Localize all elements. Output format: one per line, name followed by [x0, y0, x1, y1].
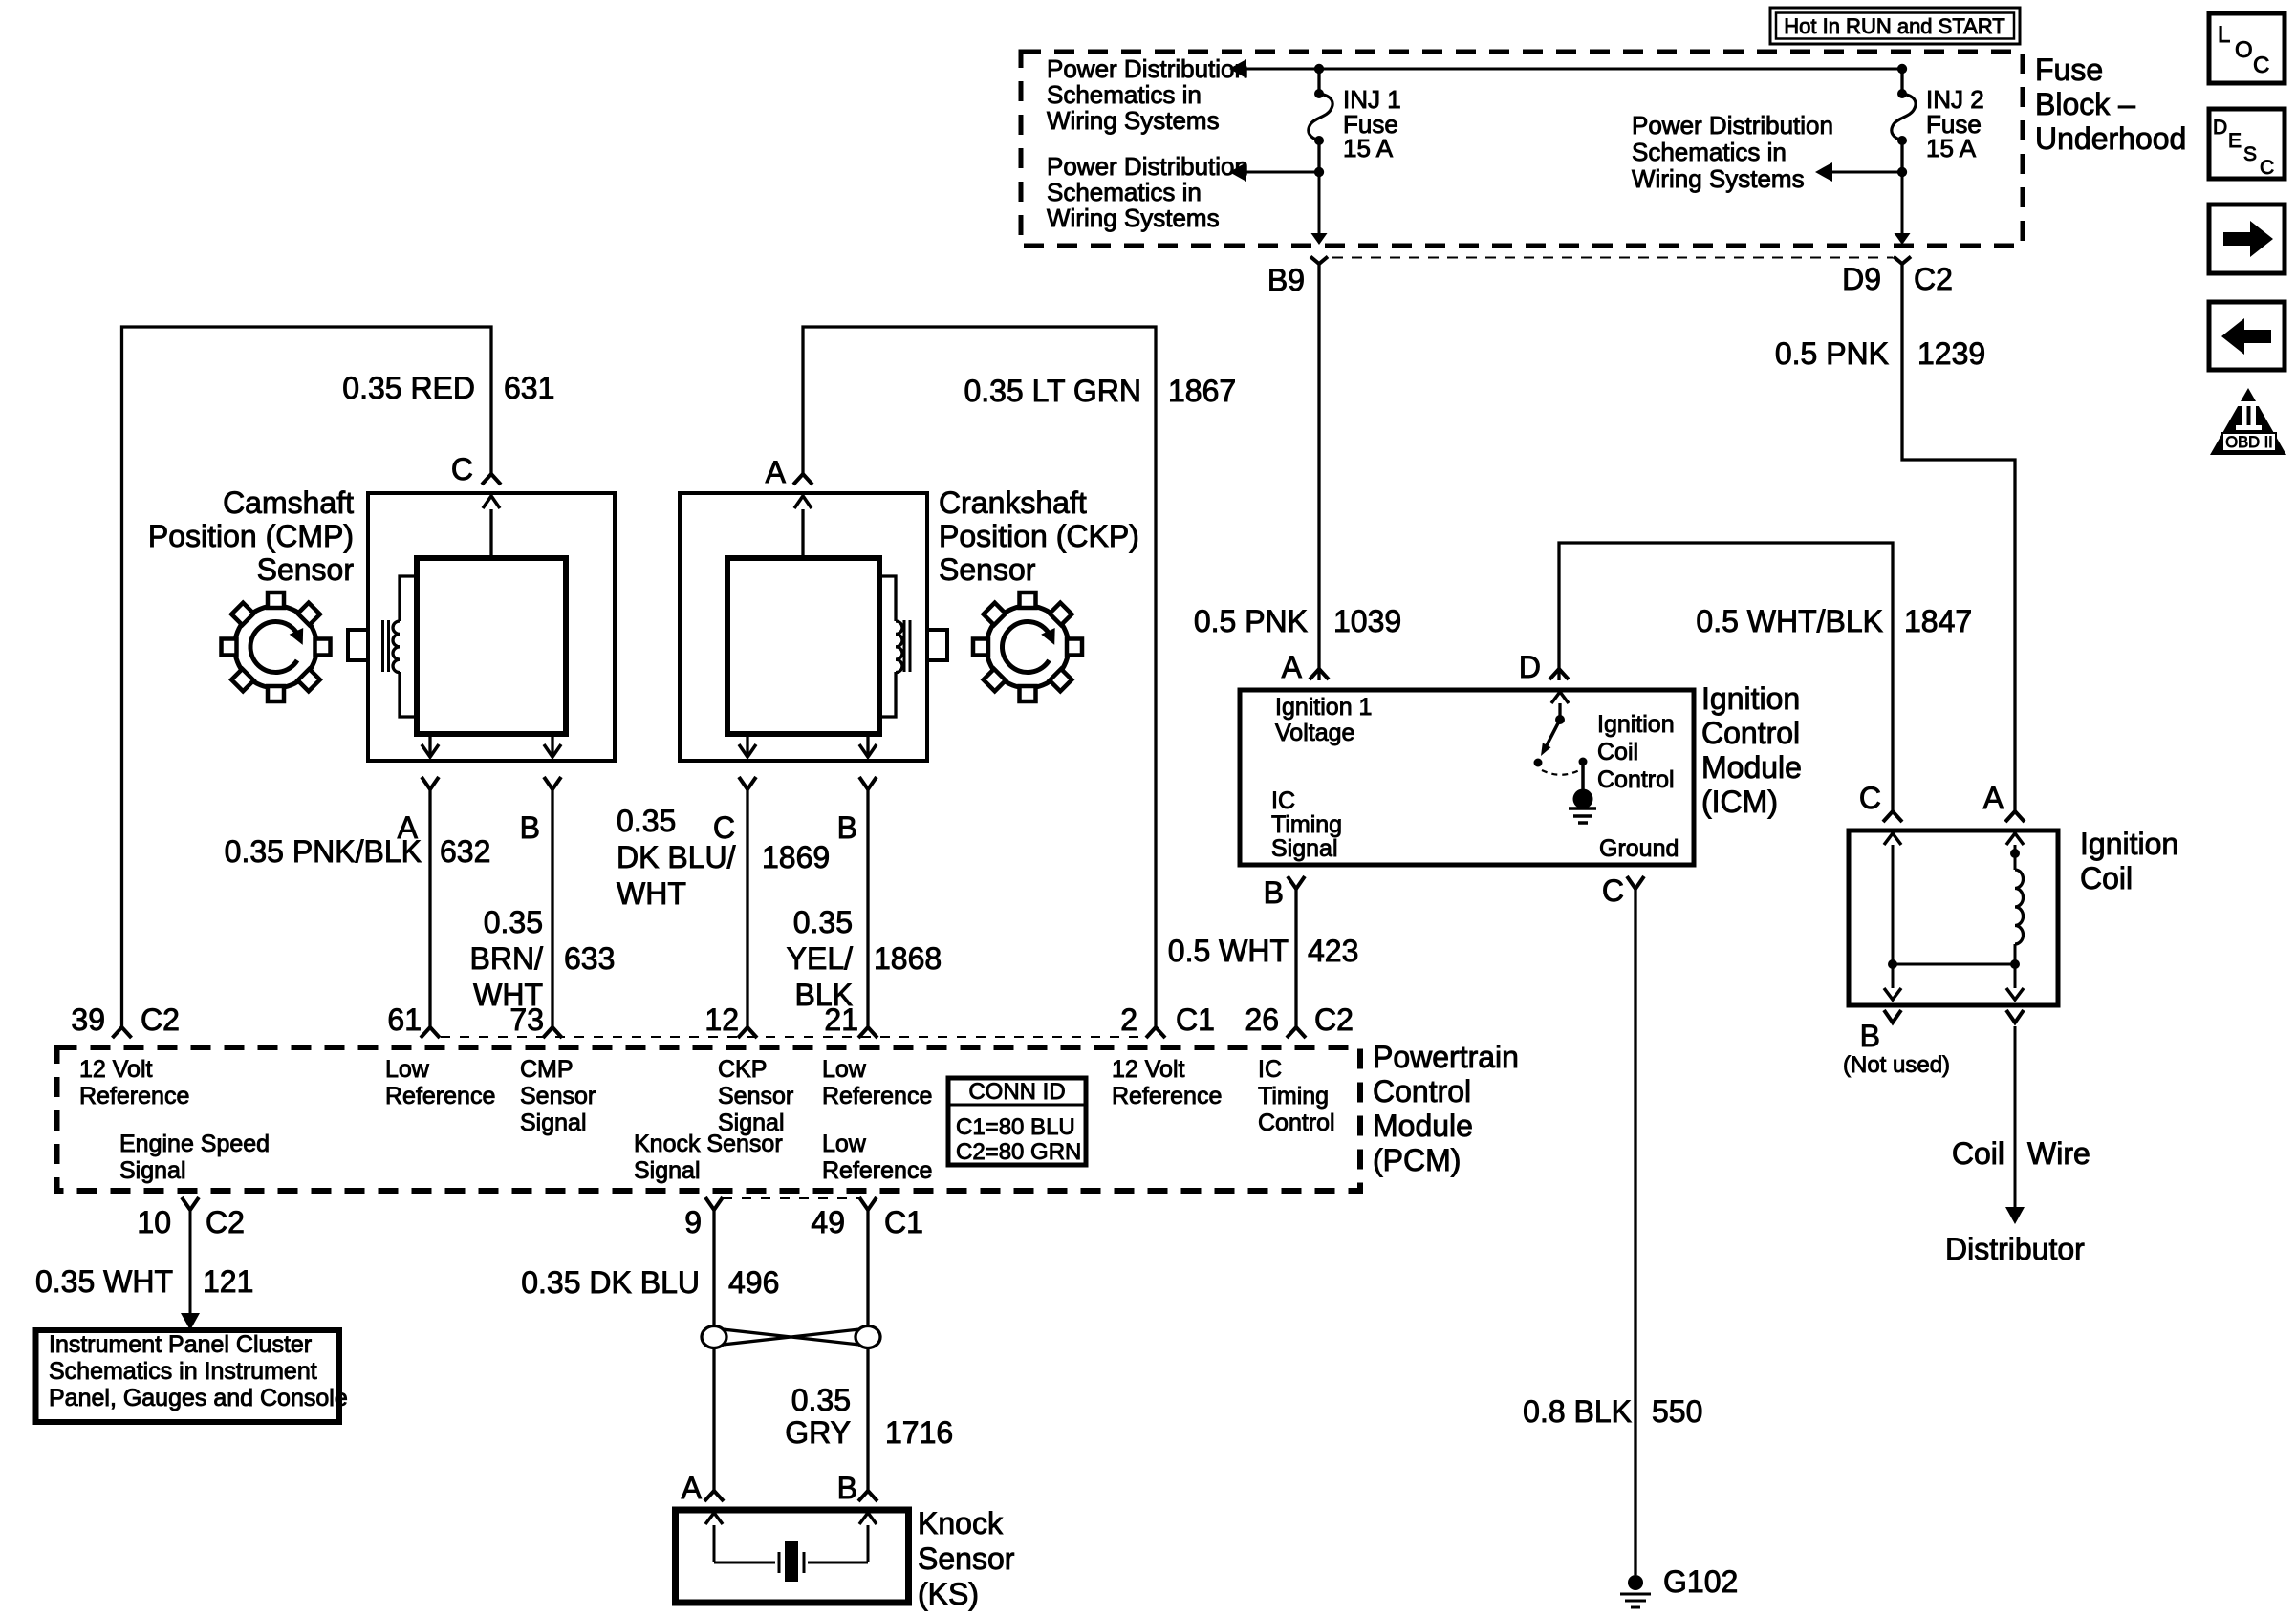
- svg-text:(ICM): (ICM): [1701, 785, 1778, 819]
- KS piezo element: [714, 1562, 775, 1564]
- svg-text:C1=80 BLU: C1=80 BLU: [956, 1114, 1075, 1140]
- knock sensor KS box: [676, 1510, 909, 1603]
- svg-text:0.35: 0.35: [617, 804, 676, 838]
- coil wire to distributor: [2006, 1010, 2024, 1023]
- svg-text:Sensor: Sensor: [520, 1083, 596, 1110]
- ICM internal ground circle: [1573, 789, 1593, 809]
- node junction INJ2 top: [1897, 64, 1907, 74]
- svg-text:0.35 DK BLU: 0.35 DK BLU: [521, 1265, 700, 1300]
- wire 0.5 WHT/BLK 1847 : ICM pin D to ignition coil C: [1559, 543, 1893, 811]
- svg-text:WHT: WHT: [617, 876, 686, 911]
- svg-text:Schematics in: Schematics in: [1047, 178, 1202, 206]
- ground G102: [1628, 1575, 1643, 1590]
- svg-text:C1: C1: [884, 1205, 923, 1239]
- svg-text:12 Volt: 12 Volt: [79, 1056, 153, 1083]
- svg-text:Reference: Reference: [1112, 1083, 1222, 1110]
- svg-text:1868: 1868: [874, 941, 942, 976]
- svg-text:Wiring Systems: Wiring Systems: [1632, 164, 1805, 193]
- svg-text:Ignition: Ignition: [1701, 681, 1800, 716]
- svg-text:0.35 PNK/BLK: 0.35 PNK/BLK: [225, 834, 422, 869]
- svg-text:Distributor: Distributor: [1945, 1232, 2085, 1266]
- icon OBD II triangle: [2210, 388, 2286, 455]
- svg-text:10: 10: [137, 1205, 171, 1239]
- svg-text:Fuse: Fuse: [2035, 53, 2103, 87]
- svg-text:D: D: [1519, 650, 1541, 684]
- wire 0.35 WHT 121 to instrument cluster: [189, 1210, 192, 1313]
- svg-text:Instrument Panel Cluster: Instrument Panel Cluster: [49, 1331, 312, 1358]
- svg-text:Reference: Reference: [79, 1083, 189, 1110]
- svg-text:GRY: GRY: [785, 1415, 851, 1450]
- svg-text:1039: 1039: [1333, 604, 1401, 638]
- wire 0.35 DK BLU 496: [712, 1210, 715, 1491]
- connector pin 12: [738, 1027, 757, 1038]
- wire 0.5 PNK 1239 from D9 to ignition coil A: [1902, 264, 2015, 811]
- svg-text:632: 632: [440, 834, 490, 869]
- svg-text:L: L: [2218, 22, 2230, 48]
- svg-text:Block –: Block –: [2035, 87, 2135, 121]
- wire 0.5 PNK 1039 from B9 to ICM pin A: [1317, 264, 1320, 680]
- svg-text:C2: C2: [1914, 262, 1953, 296]
- svg-text:1716: 1716: [885, 1415, 953, 1450]
- svg-text:Low: Low: [385, 1056, 430, 1083]
- connector A at ignition coil: [2005, 811, 2025, 822]
- svg-text:15 A: 15 A: [1343, 134, 1394, 162]
- svg-text:496: 496: [728, 1265, 779, 1300]
- svg-text:Ignition: Ignition: [1597, 711, 1675, 738]
- crankshaft position sensor CKP outer box: [680, 493, 927, 761]
- wire INJ1 down to B9: [1318, 172, 1321, 233]
- icon left arrow box: [2209, 302, 2285, 370]
- svg-text:S: S: [2243, 143, 2257, 165]
- svg-text:Camshaft: Camshaft: [223, 485, 354, 520]
- svg-text:631: 631: [504, 371, 554, 405]
- connector B below ICM: [1288, 876, 1305, 889]
- svg-text:633: 633: [564, 941, 615, 976]
- svg-text:121: 121: [203, 1264, 253, 1299]
- svg-text:Sensor: Sensor: [939, 552, 1036, 587]
- connector dashed line B9-D9: [1332, 257, 1893, 259]
- powertrain control module PCM dashed box: [57, 1047, 1361, 1191]
- node junction INJ2 bottom: [1897, 167, 1907, 177]
- svg-text:E: E: [2228, 130, 2242, 152]
- ICM switch contact dot: [1555, 715, 1565, 724]
- ICM switch: arrow up to pin D: [1558, 703, 1561, 720]
- svg-text:Engine Speed: Engine Speed: [119, 1131, 270, 1157]
- wire 0.5 WHT 423 : ICM B to PCM 26: [1294, 889, 1297, 1027]
- wire 0.35 YEL/BLK 1868: [866, 789, 869, 1027]
- svg-text:CMP: CMP: [520, 1056, 574, 1083]
- wire 0.35 RED 631 : CMP pin C to PCM pin 39: [122, 327, 492, 1027]
- svg-text:DK BLU/: DK BLU/: [617, 840, 736, 874]
- svg-text:C: C: [2253, 53, 2269, 78]
- connector B at knock sensor: [858, 1491, 877, 1501]
- svg-text:Signal: Signal: [634, 1157, 701, 1184]
- svg-text:Power Distribution: Power Distribution: [1047, 152, 1248, 181]
- svg-text:B9: B9: [1267, 263, 1305, 297]
- twisted pair symbol: [702, 1326, 726, 1348]
- icon LOC box: [2209, 13, 2285, 83]
- svg-text:B: B: [837, 1471, 857, 1505]
- svg-text:0.35 LT GRN: 0.35 LT GRN: [964, 374, 1141, 408]
- wire 0.35 BRN/WHT 633: [551, 789, 553, 1027]
- node junction INJ1 bottom: [1314, 167, 1324, 177]
- CKP sensor inner element box: [727, 558, 879, 734]
- svg-text:15 A: 15 A: [1926, 134, 1977, 162]
- node junction INJ1 top: [1314, 64, 1324, 74]
- CKP pickup coil winding: [896, 621, 902, 673]
- connector pin 9: [705, 1197, 723, 1210]
- connector C at CMP sensor: [482, 474, 501, 485]
- svg-text:12 Volt: 12 Volt: [1112, 1056, 1185, 1083]
- connector pin 10 / C2: [182, 1197, 199, 1210]
- svg-text:Voltage: Voltage: [1275, 720, 1354, 746]
- fuse block underhood dashed box: [1021, 52, 2023, 246]
- svg-text:C2: C2: [1314, 1002, 1354, 1037]
- svg-text:Wiring Systems: Wiring Systems: [1047, 106, 1220, 135]
- svg-text:Underhood: Underhood: [2035, 121, 2186, 156]
- svg-text:0.35: 0.35: [484, 905, 543, 939]
- CMP internal arrow down to pin B: [551, 734, 553, 745]
- fuse INJ 2 15A: [1900, 69, 1903, 94]
- CONN ID box: [948, 1078, 1086, 1165]
- svg-text:A: A: [682, 1471, 703, 1505]
- svg-text:Coil: Coil: [2080, 861, 2133, 895]
- connector pin 21: [858, 1027, 877, 1038]
- svg-text:Position (CKP): Position (CKP): [939, 519, 1139, 553]
- svg-text:1847: 1847: [1904, 604, 1972, 638]
- svg-text:2: 2: [1120, 1002, 1137, 1037]
- connector B below coil (not used): [1884, 1010, 1901, 1023]
- svg-text:C1: C1: [1176, 1002, 1215, 1037]
- svg-text:(Not used): (Not used): [1843, 1052, 1950, 1078]
- svg-text:0.8 BLK: 0.8 BLK: [1523, 1394, 1632, 1429]
- ignition control module ICM box: [1240, 690, 1694, 865]
- svg-text:1239: 1239: [1917, 336, 1985, 371]
- connector pin 39 / C2: [113, 1027, 132, 1038]
- ICM switch blade with arrowhead: [1547, 720, 1560, 745]
- CKP pickup loop: [879, 576, 896, 717]
- camshaft position sensor CMP outer box: [368, 493, 615, 761]
- svg-text:D: D: [2213, 117, 2227, 139]
- KS internal arrow B: [867, 1525, 870, 1562]
- connector B below CMP: [544, 777, 561, 789]
- instrument panel cluster reference box: [36, 1330, 340, 1422]
- ICM switch travel dashed arc: [1542, 769, 1581, 775]
- svg-text:Sensor: Sensor: [718, 1083, 793, 1110]
- CKP core lines: [903, 620, 906, 672]
- svg-text:B: B: [1860, 1019, 1880, 1053]
- svg-text:0.35 RED: 0.35 RED: [342, 371, 475, 405]
- svg-text:12: 12: [704, 1002, 739, 1037]
- svg-text:9: 9: [684, 1205, 702, 1239]
- svg-text:Reference: Reference: [822, 1083, 932, 1110]
- svg-text:Signal: Signal: [520, 1110, 587, 1136]
- svg-text:C: C: [451, 452, 473, 486]
- svg-text:Control: Control: [1373, 1074, 1471, 1109]
- svg-text:Signal: Signal: [1271, 835, 1338, 862]
- svg-text:Knock Sensor: Knock Sensor: [634, 1131, 783, 1157]
- svg-text:G102: G102: [1663, 1564, 1738, 1599]
- svg-text:Schematics in: Schematics in: [1632, 138, 1787, 166]
- svg-text:OBD II: OBD II: [2225, 434, 2273, 451]
- svg-text:C2=80 GRN: C2=80 GRN: [956, 1139, 1081, 1165]
- connector pin 49 / C1: [859, 1197, 877, 1210]
- svg-text:C: C: [2260, 157, 2274, 179]
- wire 0.8 BLK 550 : ICM C to G102: [1634, 889, 1636, 1575]
- CMP pickup loop: [400, 576, 417, 717]
- svg-text:Timing: Timing: [1258, 1083, 1329, 1110]
- svg-text:Timing: Timing: [1271, 811, 1342, 838]
- ICM switch lower-left contact dot: [1534, 759, 1543, 767]
- connector C below ICM: [1627, 876, 1644, 889]
- svg-text:B: B: [520, 810, 540, 845]
- CMP internal arrow down to pin A: [428, 734, 431, 745]
- connector A below CMP: [422, 777, 439, 789]
- svg-text:Power Distribution: Power Distribution: [1047, 54, 1248, 83]
- svg-text:C2: C2: [141, 1002, 180, 1037]
- CMP reluctor gear icon: [235, 606, 317, 688]
- connector pin 73: [543, 1027, 562, 1038]
- connector dashed line pins 61..2: [441, 1036, 1147, 1038]
- connector A at ICM: [1310, 669, 1329, 679]
- svg-text:Low: Low: [822, 1056, 867, 1083]
- ICM internal ground symbol: [1569, 807, 1596, 810]
- svg-text:Signal: Signal: [119, 1157, 186, 1184]
- svg-text:1867: 1867: [1168, 374, 1236, 408]
- wire bus from INJ1 fuse to INJ2 fuse: [1246, 68, 1902, 71]
- label Hot In RUN and START box: [1770, 8, 2020, 44]
- svg-text:73: 73: [509, 1002, 544, 1037]
- svg-text:YEL/: YEL/: [787, 941, 853, 976]
- svg-text:Module: Module: [1373, 1109, 1473, 1143]
- svg-text:0.5 PNK: 0.5 PNK: [1194, 604, 1308, 638]
- svg-text:423: 423: [1308, 934, 1358, 968]
- svg-text:1869: 1869: [762, 840, 830, 874]
- svg-text:CONN ID: CONN ID: [968, 1079, 1065, 1105]
- svg-text:Ignition 1: Ignition 1: [1275, 694, 1372, 721]
- svg-text:Power Distribution: Power Distribution: [1632, 111, 1833, 140]
- svg-text:Ground: Ground: [1599, 835, 1679, 862]
- svg-text:Reference: Reference: [385, 1083, 495, 1110]
- svg-text:(KS): (KS): [918, 1577, 979, 1611]
- svg-text:(PCM): (PCM): [1373, 1143, 1461, 1177]
- svg-text:B: B: [837, 810, 857, 845]
- connector A at knock sensor: [704, 1491, 724, 1501]
- svg-text:C: C: [1859, 781, 1881, 815]
- svg-text:CKP: CKP: [718, 1056, 767, 1083]
- svg-text:26: 26: [1245, 1002, 1279, 1037]
- svg-text:BRN/: BRN/: [470, 941, 544, 976]
- svg-text:Low: Low: [822, 1131, 867, 1157]
- icon DESC box: [2209, 109, 2285, 179]
- svg-text:IC: IC: [1271, 787, 1295, 814]
- wire arrow to power distribution (lower left): [1246, 171, 1319, 174]
- svg-text:Panel, Gauges and Console: Panel, Gauges and Console: [49, 1385, 348, 1411]
- svg-text:49: 49: [811, 1205, 845, 1239]
- CKP mounting tab: [927, 630, 947, 660]
- ignition coil box: [1849, 830, 2058, 1005]
- svg-text:0.5 WHT/BLK: 0.5 WHT/BLK: [1696, 604, 1883, 638]
- CMP mounting tab: [348, 630, 368, 660]
- connector B below CKP: [859, 777, 877, 789]
- wire arrow to power distribution (center): [1832, 171, 1902, 174]
- svg-text:Ignition: Ignition: [2080, 827, 2178, 861]
- svg-text:Control: Control: [1597, 766, 1675, 793]
- connector B9: [1310, 257, 1328, 265]
- CKP internal arrow down to pin B: [866, 734, 869, 757]
- svg-text:Schematics in: Schematics in: [1047, 80, 1202, 109]
- svg-text:Knock: Knock: [918, 1506, 1004, 1541]
- ICM switch right contact dot: [1579, 758, 1588, 766]
- svg-text:D9: D9: [1842, 262, 1881, 296]
- coil primary line with arrows: [1892, 845, 1895, 959]
- wire 0.35 DK BLU/WHT 1869: [746, 789, 748, 1027]
- svg-text:C2: C2: [206, 1205, 245, 1239]
- connector dashed line pins 9-49: [723, 1197, 859, 1199]
- svg-text:O: O: [2235, 37, 2253, 63]
- svg-text:550: 550: [1652, 1394, 1702, 1429]
- connector C at ignition coil: [1883, 811, 1902, 822]
- svg-text:A: A: [1282, 650, 1303, 684]
- svg-text:Reference: Reference: [822, 1157, 932, 1184]
- svg-text:C: C: [1602, 873, 1624, 908]
- connector D9 / C2: [1894, 257, 1911, 265]
- svg-text:0.35: 0.35: [791, 1383, 851, 1417]
- connector pin 26 / C2: [1287, 1027, 1306, 1038]
- wire 0.35 PNK/BLK 632: [428, 789, 431, 1027]
- svg-text:Crankshaft: Crankshaft: [939, 485, 1087, 520]
- connector A at CKP sensor: [793, 474, 812, 485]
- coil internal link: [1893, 963, 2015, 966]
- svg-text:Wiring Systems: Wiring Systems: [1047, 204, 1220, 232]
- wire 0.35 GRY 1716: [866, 1210, 869, 1491]
- CMP internal arrow up to pin C: [489, 509, 492, 558]
- connector C below CKP: [739, 777, 756, 789]
- wire 0.35 LT GRN 1867 : CKP pin A to PCM pin 2: [803, 327, 1156, 1027]
- svg-text:B: B: [1264, 875, 1284, 910]
- fuse INJ 1 15A: [1317, 69, 1320, 94]
- CMP core lines: [381, 620, 384, 672]
- svg-text:Sensor: Sensor: [918, 1541, 1015, 1576]
- svg-text:Sensor: Sensor: [257, 552, 355, 587]
- svg-text:39: 39: [71, 1002, 105, 1037]
- CMP sensor inner element box: [417, 558, 566, 734]
- icon right arrow box: [2209, 205, 2285, 273]
- CKP internal arrow down to pin C: [746, 734, 748, 757]
- svg-text:21: 21: [824, 1002, 858, 1037]
- CKP internal arrow up to pin A: [801, 509, 804, 558]
- ICM internal ground stem: [1581, 762, 1585, 790]
- svg-text:0.35: 0.35: [793, 905, 853, 939]
- svg-text:61: 61: [387, 1002, 422, 1037]
- svg-text:A: A: [1983, 781, 2004, 815]
- svg-text:Hot In RUN and START: Hot In RUN and START: [1784, 14, 2004, 38]
- CMP pickup coil winding: [393, 621, 400, 673]
- connector pin 61: [421, 1027, 440, 1038]
- svg-text:Position (CMP): Position (CMP): [148, 519, 354, 553]
- svg-text:Schematics in Instrument: Schematics in Instrument: [49, 1358, 317, 1385]
- svg-text:0.35 WHT: 0.35 WHT: [35, 1264, 173, 1299]
- svg-text:Control: Control: [1701, 716, 1800, 750]
- svg-text:Coil: Coil: [1597, 739, 1638, 765]
- svg-text:0.5 PNK: 0.5 PNK: [1775, 336, 1889, 371]
- connector pin 2 / C1: [1146, 1027, 1165, 1038]
- CKP reluctor gear icon: [986, 606, 1069, 688]
- connector D at ICM: [1549, 669, 1569, 679]
- svg-text:Module: Module: [1701, 750, 1802, 785]
- svg-text:Wire: Wire: [2027, 1136, 2090, 1171]
- wire INJ2 down to D9: [1901, 172, 1904, 233]
- KS internal arrow A: [713, 1525, 716, 1562]
- svg-text:Control: Control: [1258, 1110, 1335, 1136]
- coil secondary winding: [2006, 833, 2024, 845]
- svg-text:IC: IC: [1258, 1056, 1282, 1083]
- svg-text:Coil: Coil: [1952, 1136, 2004, 1171]
- svg-text:A: A: [766, 455, 787, 489]
- svg-text:Powertrain: Powertrain: [1373, 1040, 1519, 1074]
- svg-text:0.5 WHT: 0.5 WHT: [1168, 934, 1289, 968]
